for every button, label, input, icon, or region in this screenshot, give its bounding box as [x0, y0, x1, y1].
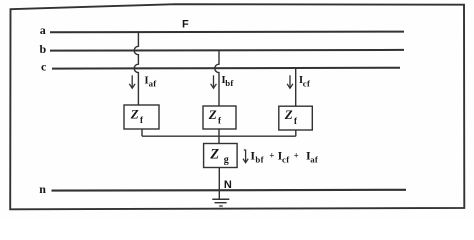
- svg-text:Z: Z: [130, 106, 139, 121]
- impedance Zf box 2: [203, 106, 236, 129]
- svg-text:g: g: [224, 155, 229, 166]
- label Ibf: [221, 74, 234, 88]
- svg-text:Z: Z: [284, 107, 293, 122]
- ground symbol: [212, 199, 229, 206]
- wire stub from Zf box3 to bus: [295, 130, 297, 136]
- impedance Zf box 3: [279, 106, 313, 130]
- svg-text:a: a: [40, 23, 46, 37]
- svg-text:F: F: [182, 19, 189, 31]
- svg-text:af: af: [149, 78, 158, 88]
- wire phase a: [50, 31, 404, 34]
- wire neutral n: [52, 189, 407, 192]
- current arrow sum into ground: [243, 150, 248, 163]
- svg-text:b: b: [40, 42, 47, 56]
- svg-text:bf: bf: [225, 78, 234, 88]
- wire drop from phase c: [295, 68, 297, 106]
- wire phase c: [52, 67, 400, 70]
- label Iaf: [144, 75, 157, 89]
- svg-text:+: +: [294, 151, 299, 161]
- current arrow Icf: [287, 75, 293, 88]
- svg-text:c: c: [41, 60, 47, 74]
- svg-text:n: n: [39, 182, 46, 196]
- wire stub from Zf box1 to bus: [141, 129, 143, 136]
- svg-text:Z: Z: [208, 107, 217, 122]
- impedance Zg box: [204, 144, 238, 168]
- svg-text:af: af: [310, 155, 319, 165]
- svg-text:bf: bf: [255, 155, 264, 165]
- impedance Zf box 1: [124, 105, 159, 129]
- wire drop from phase a with hops over b and c: [134, 32, 138, 105]
- svg-text:+: +: [269, 151, 274, 161]
- current arrow Iaf: [129, 75, 135, 88]
- current arrow Ibf: [211, 75, 217, 88]
- svg-text:cf: cf: [303, 78, 311, 88]
- svg-text:Z: Z: [209, 146, 219, 162]
- wire stub from Zf box2 to Zg: [218, 129, 220, 144]
- wire phase b: [50, 49, 404, 52]
- label Ibf + Icf + Iaf: [250, 148, 318, 164]
- svg-text:cf: cf: [282, 155, 290, 165]
- label Icf: [299, 74, 311, 88]
- wire drop from phase b with hop over c: [215, 50, 219, 106]
- wire common bus: [142, 135, 296, 137]
- wire from Zg to ground: [218, 168, 220, 200]
